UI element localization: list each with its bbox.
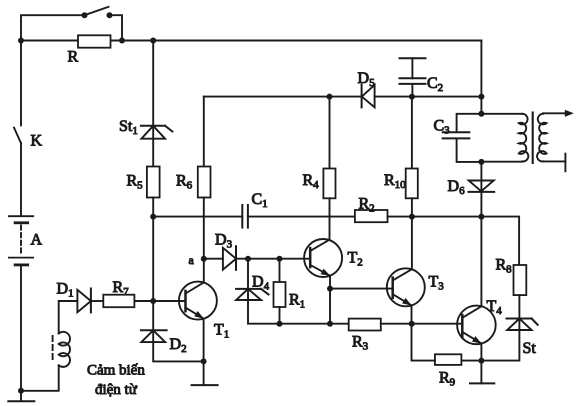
wire left rail upper segment xyxy=(20,41,22,126)
node junction R10-R2 xyxy=(409,214,415,220)
label T4 xyxy=(487,298,503,317)
svg-text:R8: R8 xyxy=(496,257,513,276)
label D2 xyxy=(170,336,187,355)
wire D1 to R7 xyxy=(91,300,103,302)
battery A plate short bottom xyxy=(15,263,28,266)
wire left rail lower segment xyxy=(20,265,22,391)
label R5 xyxy=(127,173,144,192)
label T3 xyxy=(429,274,445,293)
node junction R4 top xyxy=(327,94,333,100)
transistor T3 xyxy=(387,268,425,306)
wire from bypass switch down to rail xyxy=(110,15,123,40)
label a xyxy=(189,253,195,267)
bypass switch (open) over resistor R xyxy=(82,7,113,18)
capacitor C3 xyxy=(443,132,470,138)
node junction T4 emitter xyxy=(478,358,484,364)
svg-text:T2: T2 xyxy=(348,250,363,269)
resistor R xyxy=(78,35,111,47)
wire R5 down to D2 xyxy=(152,198,154,343)
wire R10 top lead xyxy=(411,97,413,169)
wire D6 to T4 collector xyxy=(480,192,482,306)
node junction switch-drop xyxy=(119,38,125,44)
svg-text:a: a xyxy=(189,253,195,267)
wire secondary output top with arrow xyxy=(543,110,574,117)
node junction R5-C1 xyxy=(150,214,156,220)
svg-text:D1: D1 xyxy=(57,281,74,300)
wire D4 branch upper xyxy=(247,259,249,300)
label T2 xyxy=(348,250,363,269)
svg-text:R: R xyxy=(68,49,79,66)
wire R4 to T2 collector xyxy=(329,198,331,240)
node junction T2 emitter xyxy=(327,286,333,292)
label St1 xyxy=(119,118,138,137)
svg-text:D5: D5 xyxy=(358,70,376,89)
diode D3 xyxy=(223,246,236,270)
node junction D4 top xyxy=(245,256,251,262)
sensor coil core dashes xyxy=(52,336,54,363)
label D4 xyxy=(252,274,270,293)
wire D4 to bottom rail xyxy=(248,300,279,324)
ground under T4 xyxy=(470,361,494,384)
resistor R3 xyxy=(349,319,381,331)
transistor T1 xyxy=(179,282,217,320)
svg-text:St: St xyxy=(523,340,537,357)
wire St1 to R5 xyxy=(152,126,154,167)
resistor R8 xyxy=(514,265,527,295)
svg-text:T1: T1 xyxy=(214,322,229,341)
svg-text:K: K xyxy=(31,133,43,150)
node junction tank top xyxy=(478,111,484,117)
svg-text:R2: R2 xyxy=(359,196,375,215)
wire rail down to zener St1 xyxy=(152,41,154,126)
diode D1 xyxy=(77,289,91,313)
node junction rail-St1 xyxy=(150,38,156,44)
wire R4 top lead xyxy=(329,97,331,169)
svg-text:R1: R1 xyxy=(289,292,305,311)
transformer primary winding xyxy=(481,114,528,162)
resistor R10 xyxy=(406,169,418,199)
battery A plate long bottom xyxy=(9,257,33,259)
label C2 xyxy=(427,75,443,94)
label T1 xyxy=(214,322,229,341)
transistor T2 xyxy=(304,239,342,277)
zener St1 xyxy=(141,126,173,139)
svg-text:A: A xyxy=(31,232,43,249)
resistor R6 xyxy=(198,167,211,198)
wire R10 to T3 collector xyxy=(411,198,413,269)
wire R8 to St xyxy=(518,295,520,330)
wire R6 top lead xyxy=(203,97,205,167)
label R7 xyxy=(113,279,130,298)
label R2 xyxy=(359,196,375,215)
node junction C2 bottom xyxy=(409,94,415,100)
wire R9 to T3 bottom xyxy=(412,324,435,361)
label D5 xyxy=(358,70,376,89)
wire bottom rail left of R3 xyxy=(279,323,348,325)
wire tank bottom to D6 xyxy=(480,162,482,192)
capacitor C1 xyxy=(242,205,248,228)
wire R1 top lead xyxy=(279,259,281,282)
label A xyxy=(31,232,43,249)
wire T2 emitter down xyxy=(329,276,331,324)
wire R6 to T1 collector xyxy=(203,198,205,283)
wire R6 node to D5 xyxy=(204,96,362,98)
wire secondary output bottom terminal xyxy=(543,154,566,172)
wire left rail between K and battery xyxy=(20,143,22,216)
zener St xyxy=(507,319,538,331)
label D1 xyxy=(57,281,74,300)
node junction D6-R2 xyxy=(478,214,484,220)
wire R2 to R8 corner xyxy=(388,217,520,265)
zener D4 xyxy=(236,289,268,300)
label St xyxy=(523,340,537,357)
wire D2 to emitter node xyxy=(153,342,203,361)
wire node a to D3 xyxy=(204,258,223,260)
node junction base-R7 xyxy=(150,298,156,304)
wire T1 emitter to ground node xyxy=(203,319,205,362)
battery A plate long top xyxy=(9,215,33,217)
resistor R9 xyxy=(435,354,462,365)
transformer core xyxy=(532,113,534,164)
svg-text:D3: D3 xyxy=(215,232,233,251)
svg-text:R9: R9 xyxy=(439,370,456,389)
svg-text:Cảm biến: Cảm biến xyxy=(87,363,145,379)
resistor R5 xyxy=(147,167,160,198)
capacitor C2 xyxy=(400,58,426,96)
label D6 xyxy=(448,178,466,197)
label R10 xyxy=(384,172,406,191)
label C1 xyxy=(252,191,268,210)
node junction R1 top xyxy=(277,256,283,262)
wire T2 emitter to T3 base xyxy=(330,288,393,290)
resistor R1 xyxy=(274,282,286,307)
label D3 xyxy=(215,232,233,251)
label R1 xyxy=(289,292,305,311)
wire St to R9 node xyxy=(461,330,519,361)
node junction T3 emitter xyxy=(409,321,415,327)
node junction T1 emitter xyxy=(201,358,207,364)
svg-text:R3: R3 xyxy=(352,334,369,353)
wire T4 emitter down xyxy=(480,344,482,361)
ground under T1 xyxy=(192,361,218,385)
battery A dashed cell link xyxy=(20,226,22,256)
svg-text:R10: R10 xyxy=(384,172,406,191)
diode D6 xyxy=(469,181,495,192)
wire tank left branch with C3 xyxy=(457,114,482,162)
svg-text:D2: D2 xyxy=(170,336,187,355)
svg-text:C3: C3 xyxy=(434,118,451,137)
label R8 xyxy=(496,257,513,276)
label R4 xyxy=(303,172,320,191)
label R3 xyxy=(352,334,369,353)
resistor R2 xyxy=(355,210,388,222)
svg-text:St1: St1 xyxy=(119,118,138,137)
wire T3 emitter down xyxy=(411,305,413,323)
svg-text:điện từ: điện từ xyxy=(95,382,138,398)
label Cam bien (line 1) xyxy=(87,363,145,379)
node junction rail-left xyxy=(18,38,24,44)
svg-text:D4: D4 xyxy=(252,274,270,293)
wire D5 to C2 node xyxy=(375,96,482,98)
battery A plate short top xyxy=(15,221,28,224)
label R xyxy=(68,49,79,66)
transistor T4 xyxy=(457,306,496,345)
svg-text:R5: R5 xyxy=(127,173,144,192)
inductor sensor coil xyxy=(59,332,70,367)
label C3 xyxy=(434,118,451,137)
svg-text:R6: R6 xyxy=(176,173,193,192)
label R6 xyxy=(176,173,193,192)
diode D5 xyxy=(362,85,375,108)
svg-text:C2: C2 xyxy=(427,75,443,94)
ground bottom-left xyxy=(8,391,34,402)
wire C1 to R2 xyxy=(248,216,355,218)
wire D3 to T2 base xyxy=(236,258,310,260)
svg-text:D6: D6 xyxy=(448,178,466,197)
svg-text:R7: R7 xyxy=(113,279,130,298)
wire top rail drop to tank xyxy=(480,41,482,114)
wire R1 bottom lead xyxy=(279,307,281,324)
switch K lever xyxy=(14,128,21,143)
node junction T2 bottom xyxy=(327,321,333,327)
node a junction xyxy=(201,256,207,262)
node junction R1 bottom xyxy=(277,321,283,327)
wire main positive rail y=40 xyxy=(21,40,481,42)
node junction tank feed xyxy=(478,94,484,100)
diode D2 xyxy=(141,330,167,342)
wire bottom-left to sensor coil xyxy=(21,365,59,391)
svg-text:C1: C1 xyxy=(252,191,268,210)
transformer secondary winding xyxy=(537,114,547,162)
resistor R4 xyxy=(323,169,335,199)
wire R5 node to C1 xyxy=(153,216,242,218)
wire sensor coil to D1 xyxy=(59,301,78,333)
node junction bottom-left xyxy=(18,388,24,394)
svg-text:T3: T3 xyxy=(429,274,445,293)
svg-text:T4: T4 xyxy=(487,298,503,317)
svg-text:R4: R4 xyxy=(303,172,320,191)
label dien tu (line 2) xyxy=(95,382,138,398)
label R9 xyxy=(439,370,456,389)
label K xyxy=(31,133,43,150)
wire bottom rail right of R3 xyxy=(381,323,463,325)
resistor R7 xyxy=(103,295,134,308)
wire R7 to T1 base xyxy=(134,300,185,302)
node junction tank bottom xyxy=(478,159,484,165)
wire top-left feed from positive rail up to bypass switch xyxy=(21,15,85,40)
